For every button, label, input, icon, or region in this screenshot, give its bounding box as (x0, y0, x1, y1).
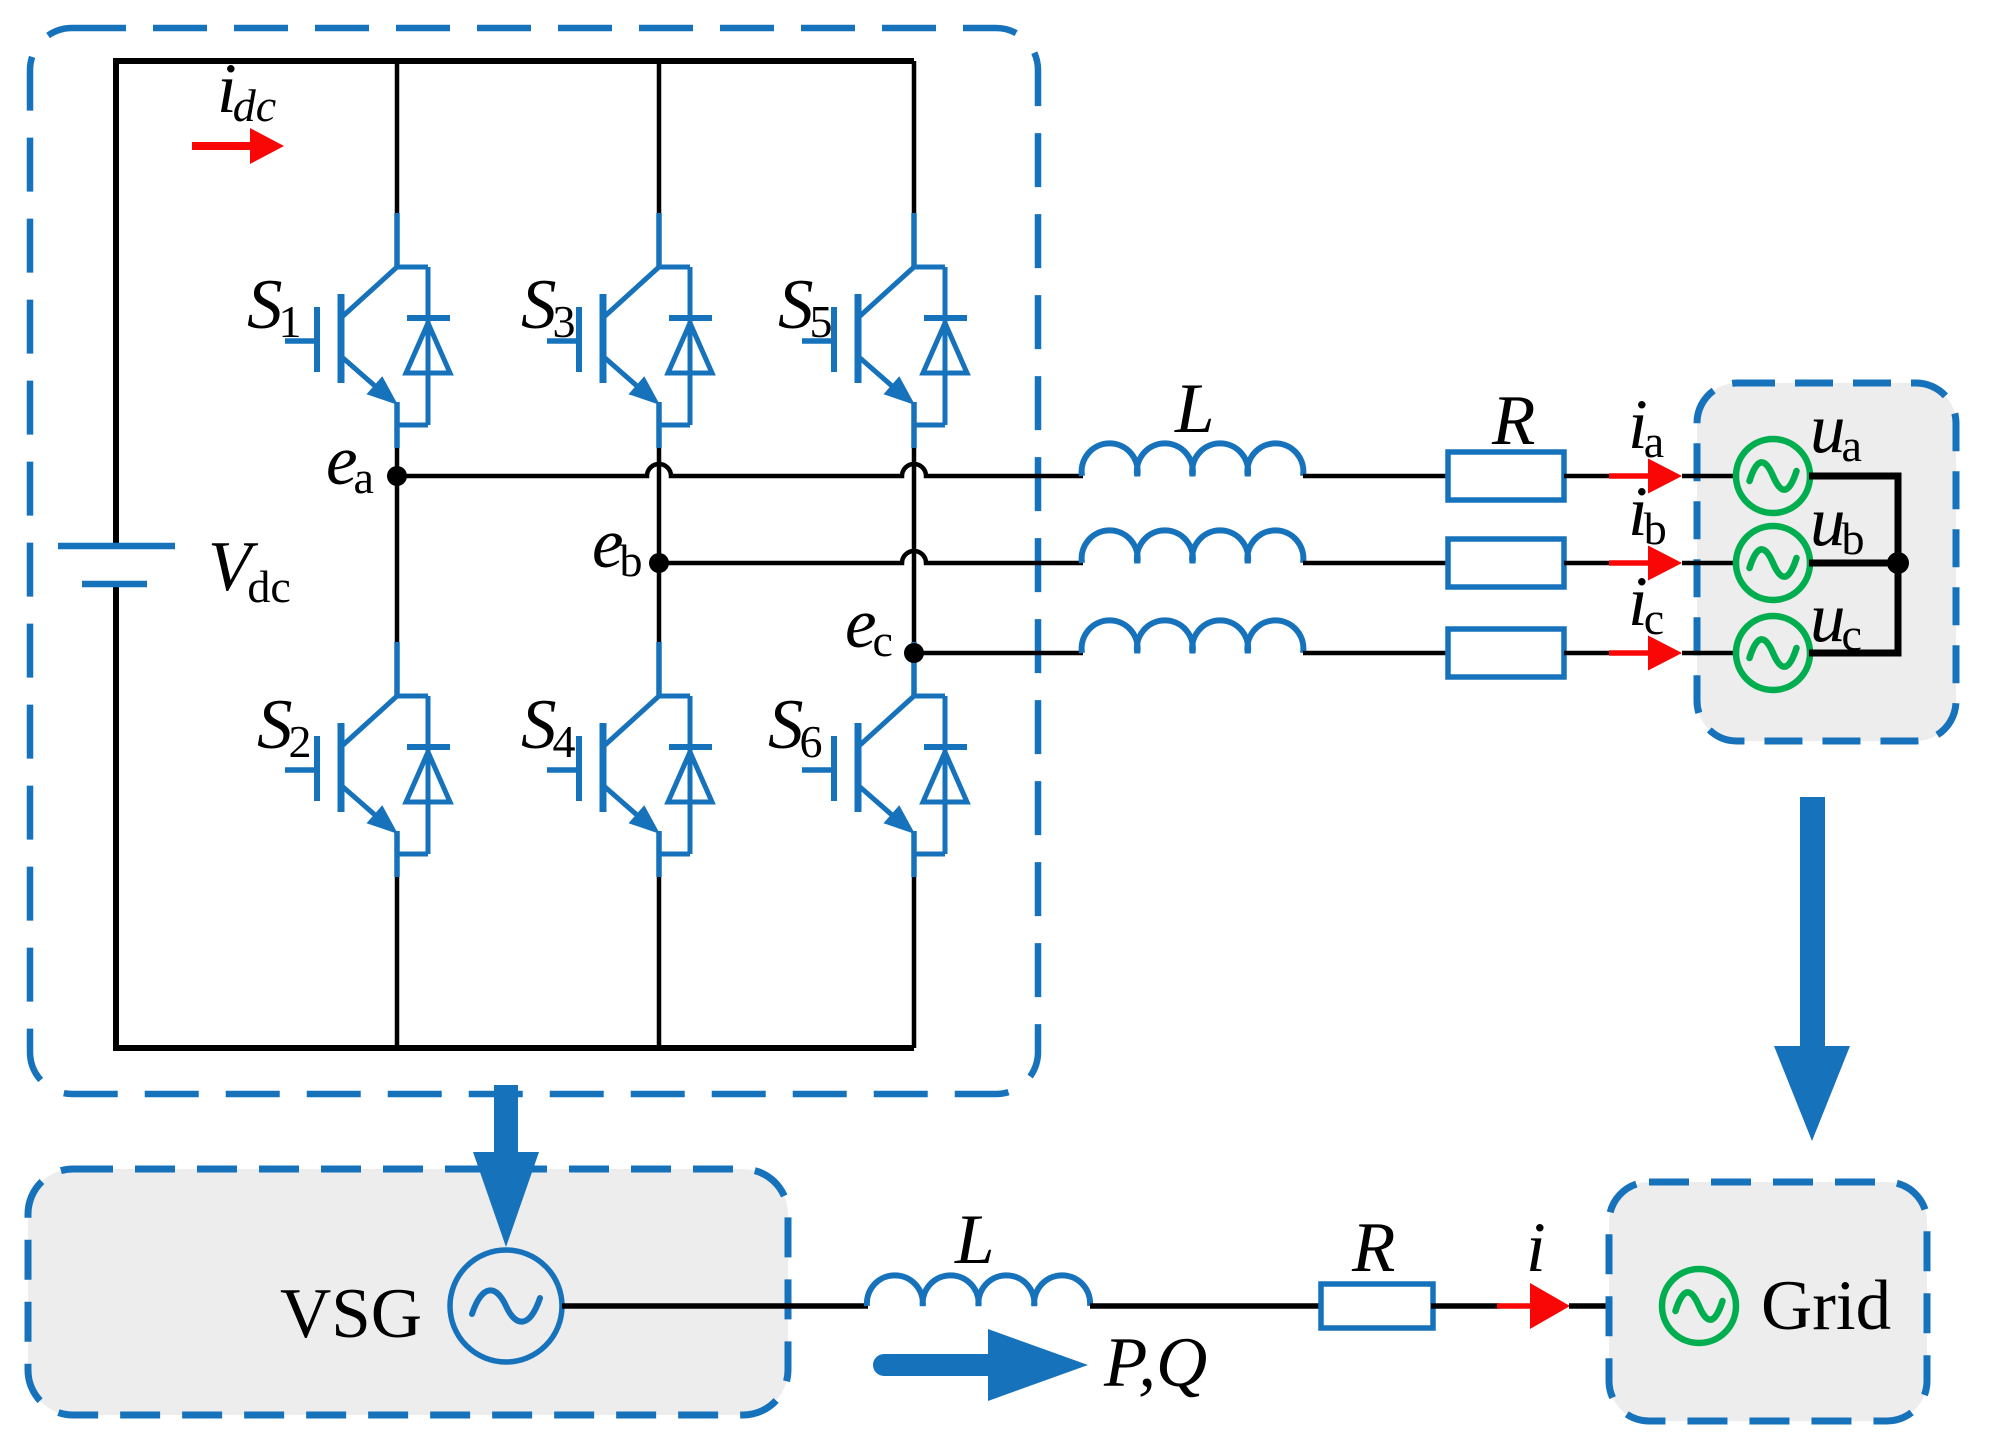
svg-text:eb: eb (592, 505, 643, 586)
VSG dashed box (28, 1169, 788, 1415)
wire: phase c resistor to arrow (1564, 651, 1612, 656)
AC source Grid (1662, 1269, 1736, 1343)
wire: phase b into source ub (1682, 561, 1737, 566)
current arrow ic (1609, 636, 1682, 671)
wire: leg A lower (395, 876, 400, 1048)
resistor R phase b (1448, 539, 1564, 587)
wire: phase b inductor to resistor (1303, 561, 1450, 566)
svg-text:S3: S3 (521, 266, 576, 347)
wire: phase a inductor to resistor (1303, 474, 1450, 479)
node neutral junction (1887, 552, 1909, 574)
wire: ub to neutral bus (1809, 560, 1898, 567)
svg-text:ia: ia (1628, 386, 1664, 467)
wire: leg C upper (912, 61, 917, 216)
node ea (387, 466, 407, 486)
svg-text:ic: ic (1628, 563, 1664, 644)
wire: neutral bus vertical (1895, 473, 1902, 657)
wire: resistor to arrow (1431, 1303, 1500, 1309)
resistor R (line resistor) (1321, 1284, 1433, 1328)
svg-text:P,Q: P,Q (1103, 1324, 1207, 1402)
wire: uc to neutral bus (1809, 650, 1898, 657)
wire: leg B middle (657, 447, 662, 645)
power flow arrow P,Q (884, 1329, 1088, 1401)
AC source ub (1736, 526, 1810, 600)
wire: phase a with crossover hops (397, 464, 1083, 476)
wire: leg C lower (912, 876, 917, 1048)
svg-text:R: R (1491, 382, 1535, 460)
inductor L (line filter) (867, 1275, 1090, 1306)
transistor S3 IGBT with antiparallel diode (547, 213, 712, 448)
svg-text:L: L (1174, 370, 1215, 448)
AC source VSG (450, 1250, 562, 1362)
wire: phase b with crossover hop (659, 551, 1083, 563)
svg-text:S2: S2 (257, 686, 312, 767)
wire: ua to neutral bus (1809, 473, 1898, 480)
wire: leg B upper (657, 61, 662, 216)
inductor L phase b (1082, 530, 1304, 563)
current arrow idc (192, 128, 284, 164)
transistor S4 IGBT with antiparallel diode (547, 642, 712, 877)
svg-text:i: i (1526, 1209, 1546, 1287)
wire: leg A middle (395, 447, 400, 645)
wire: phase c (914, 651, 1083, 656)
node ec (904, 643, 924, 663)
AC source ua (1736, 439, 1810, 513)
wire: phase c inductor to resistor (1303, 651, 1450, 656)
current arrow i (1497, 1283, 1570, 1329)
wire: leg A upper (395, 61, 400, 216)
svg-text:S1: S1 (247, 266, 302, 347)
svg-text:VSG: VSG (280, 1275, 422, 1353)
battery Vdc positive plate (58, 543, 175, 550)
node eb (649, 553, 669, 573)
Grid dashed box (1609, 1182, 1927, 1421)
wire: inductor to resistor (1090, 1303, 1322, 1309)
svg-text:Vdc: Vdc (208, 528, 291, 612)
wire: leg C middle (912, 447, 917, 645)
wire: VSG to inductor (562, 1303, 868, 1309)
svg-text:R: R (1351, 1209, 1395, 1287)
wire: DC negative bottom rail (116, 1045, 914, 1051)
AC source uc (1736, 616, 1810, 690)
battery Vdc negative plate (82, 581, 147, 588)
svg-text:S5: S5 (778, 266, 833, 347)
wire: battery left wire lower (113, 584, 119, 1051)
inverter enclosure dashed box (30, 28, 1038, 1094)
svg-text:Grid: Grid (1761, 1267, 1891, 1345)
svg-text:S4: S4 (521, 686, 576, 767)
transistor S1 IGBT with antiparallel diode (285, 213, 450, 448)
current arrow ia (1609, 459, 1682, 494)
svg-text:ec: ec (845, 585, 893, 666)
svg-text:L: L (954, 1201, 995, 1279)
arrow from inverter to VSG block (473, 1085, 539, 1247)
transistor S2 IGBT with antiparallel diode (285, 642, 450, 877)
svg-text:ea: ea (326, 422, 374, 503)
inductor L phase a (1082, 443, 1304, 476)
wire: phase c into source uc (1682, 651, 1737, 656)
transistor S5 IGBT with antiparallel diode (802, 213, 967, 448)
resistor R phase a (1448, 452, 1564, 500)
wire: phase a resistor to arrow (1564, 474, 1612, 479)
svg-text:S6: S6 (768, 686, 823, 767)
wire: phase b resistor to arrow (1564, 561, 1612, 566)
current arrow ib (1609, 546, 1682, 581)
wire: arrow to Grid source (1569, 1303, 1663, 1309)
grid voltage sources dashed box (1697, 383, 1956, 741)
inductor L phase c (1082, 620, 1304, 653)
wire: battery left wire upper (113, 58, 119, 546)
wire: leg B lower (657, 876, 662, 1048)
wire: phase a into source ua (1682, 474, 1737, 479)
resistor R phase c (1448, 629, 1564, 677)
transistor S6 IGBT with antiparallel diode (802, 642, 967, 877)
arrow from grid sources to Grid block (1774, 797, 1850, 1141)
wire: DC positive top rail (116, 58, 914, 64)
